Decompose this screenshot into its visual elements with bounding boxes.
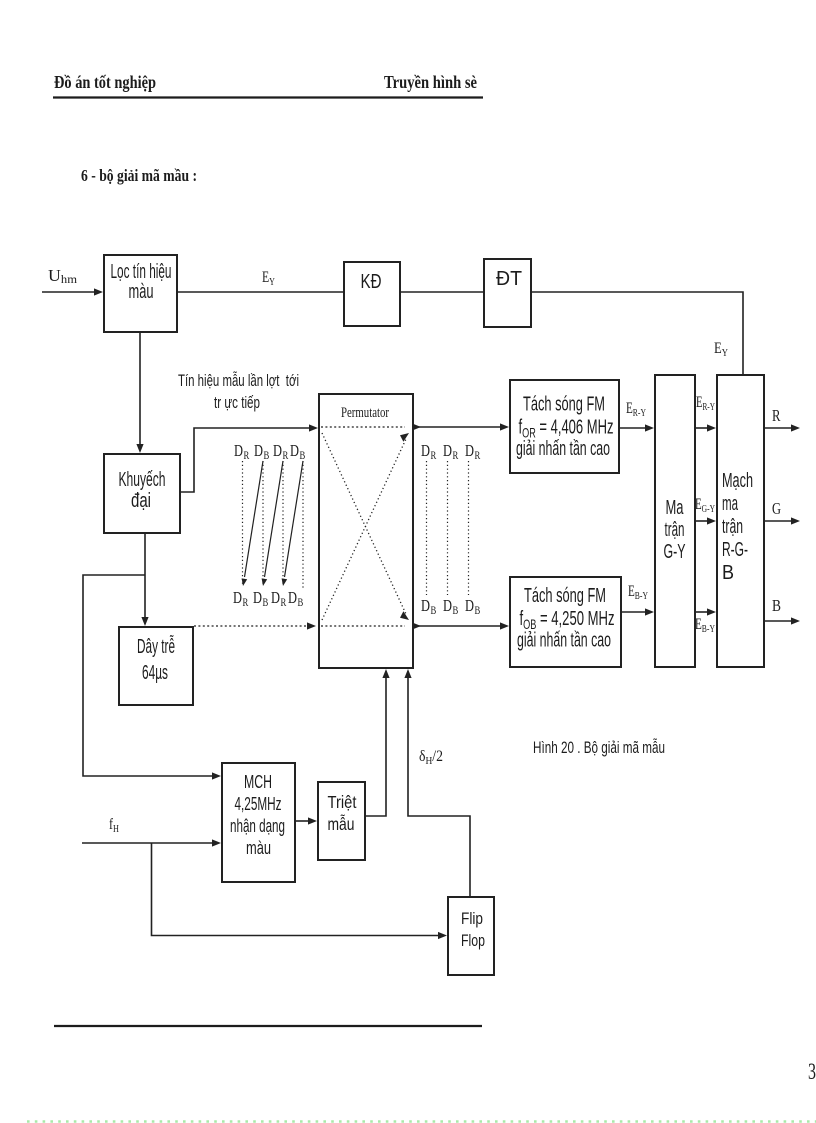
svg-text:nhận dạng: nhận dạng	[230, 815, 285, 836]
wire: Permutator top output to Tach song FM (R)	[414, 426, 502, 428]
dotted drop line under D-B 2	[302, 461, 304, 590]
svg-text:D: D	[443, 596, 452, 615]
wire: G output	[765, 520, 792, 522]
svg-text:EY: EY	[262, 269, 275, 288]
footer separator line	[54, 1025, 482, 1027]
wire: Ma tran G-Y to Mach ma tran (E R-Y)	[696, 427, 709, 429]
svg-text:D: D	[234, 441, 243, 460]
arrowhead: down into Khuyech dai	[136, 444, 143, 453]
svg-text:Flip: Flip	[461, 910, 483, 928]
dotted drop line right column 3	[468, 461, 470, 595]
svg-text:Hình 20 . Bộ giải mã mẫu: Hình 20 . Bộ giải mã mẫu	[533, 738, 665, 757]
dotted drop line under D-R 2	[282, 461, 284, 586]
svg-text:B: B	[431, 603, 437, 617]
dotted drop line under D-B 1	[262, 461, 264, 586]
svg-text:màu: màu	[246, 837, 271, 858]
svg-text:R: R	[453, 448, 459, 462]
arrowhead: into Mach (E R-Y)	[707, 424, 716, 431]
dotted diagonal: bottom-left to top-right	[322, 439, 406, 620]
svg-text:Mạch: Mạch	[722, 470, 753, 492]
svg-text:3: 3	[808, 1059, 816, 1084]
block: Mach ma tran R-G-B	[717, 375, 764, 667]
svg-text:B: B	[475, 603, 481, 617]
delay arrow 3	[285, 461, 304, 577]
svg-text:R: R	[431, 448, 437, 462]
svg-text:δH/2: δH/2	[419, 748, 443, 767]
arrowhead: into Mach (E G-Y)	[707, 517, 716, 524]
arrowhead: into Tach song FM (R)	[500, 423, 509, 430]
svg-text:ĐT: ĐT	[496, 268, 522, 290]
svg-text:EB-Y: EB-Y	[628, 583, 648, 602]
svg-text:R: R	[283, 448, 289, 462]
arrowhead: B output	[791, 617, 800, 624]
arrowhead: into Flip Flop	[438, 932, 447, 939]
wire: Khuyech dai to Permutator top input	[181, 428, 311, 492]
svg-text:Tín hiệu mẫu lần lợt tới: Tín hiệu mẫu lần lợt tới	[178, 371, 299, 390]
block: Khuyech dai	[104, 454, 180, 533]
arrowhead: into Tach song FM (B)	[500, 622, 509, 629]
svg-text:R: R	[244, 448, 250, 462]
svg-text:R: R	[243, 595, 249, 609]
svg-text:B: B	[772, 596, 781, 615]
arrowhead: down into Day tre	[141, 617, 148, 626]
arrowhead: R output	[791, 424, 800, 431]
block: Day tre 64us	[119, 627, 193, 705]
svg-text:D: D	[421, 441, 430, 460]
svg-text:Triệt: Triệt	[328, 792, 357, 812]
svg-text:64µs: 64µs	[142, 662, 168, 684]
arrowhead: Triet mau into Permutator bottom	[382, 669, 389, 678]
svg-text:D: D	[290, 441, 299, 460]
arrowhead: Flip Flop into Permutator bottom	[404, 669, 411, 678]
svg-text:EB-Y: EB-Y	[695, 616, 715, 635]
block: Ma tran G-Y	[655, 375, 695, 667]
block: KD	[344, 262, 400, 326]
svg-text:D: D	[273, 441, 282, 460]
svg-text:fH: fH	[109, 816, 119, 835]
svg-text:R: R	[475, 448, 481, 462]
svg-text:B: B	[264, 448, 270, 462]
dotted drop line right column 1	[426, 461, 428, 595]
svg-text:D: D	[233, 588, 242, 607]
wire: MCH to Triet mau	[295, 820, 310, 822]
wire: Uhm input into Loc tin hieu mau	[42, 291, 95, 293]
svg-text:Đồ án tốt nghiệp: Đồ án tốt nghiệp	[54, 72, 156, 92]
svg-text:Uhm: Uhm	[48, 266, 78, 286]
wire: Loc tin hieu mau down to Khuyech dai	[139, 333, 141, 446]
svg-text:giải nhấn tần cao: giải nhấn tần cao	[516, 438, 610, 460]
wire: DT to Mach ma tran (E-Y feed)	[531, 292, 743, 374]
svg-text:Flop: Flop	[461, 932, 485, 950]
header underline	[53, 96, 483, 98]
svg-text:ER-Y: ER-Y	[696, 394, 715, 413]
wire: Triet mau up into Permutator	[365, 677, 386, 816]
wire: fH branch to Flip Flop	[152, 843, 441, 936]
svg-text:B: B	[300, 448, 306, 462]
arrowhead: into Permutator top	[309, 424, 318, 431]
arrowhead: delay arrow 3	[282, 578, 288, 586]
arrowhead: fH into MCH	[212, 839, 221, 846]
svg-text:giải nhấn tần cao: giải nhấn tần cao	[517, 630, 611, 652]
svg-text:màu: màu	[129, 281, 154, 303]
wire: Permutator bottom output to Tach song FM (B)	[414, 625, 502, 627]
svg-text:ma: ma	[722, 493, 738, 515]
wire: Loc tin hieu mau to KD (E-Y line)	[178, 291, 343, 293]
arrowhead: into Ma tran (E R-Y)	[645, 424, 654, 431]
svg-text:4,25MHz: 4,25MHz	[235, 793, 282, 814]
svg-text:MCH: MCH	[244, 771, 272, 792]
wire: fH into MCH	[82, 842, 214, 844]
svg-text:D: D	[465, 596, 474, 615]
svg-text:KĐ: KĐ	[361, 271, 382, 293]
arrowhead: G output	[791, 517, 800, 524]
arrowhead: Permutator top inner exit	[412, 423, 421, 430]
svg-text:mẫu: mẫu	[328, 813, 355, 834]
svg-text:D: D	[254, 441, 263, 460]
svg-text:Dây trễ: Dây trễ	[137, 635, 175, 658]
svg-text:R: R	[772, 406, 781, 425]
arrowhead: into Ma tran (E B-Y)	[645, 608, 654, 615]
arrowhead: into Triet mau	[308, 817, 317, 824]
wire: Tach song FM (R) to Ma tran G-Y	[620, 427, 647, 429]
wire: Flip Flop up into Permutator	[408, 677, 470, 897]
svg-text:D: D	[271, 588, 280, 607]
block: MCH 4,25MHz nhan dang mau	[222, 763, 295, 882]
block: DT	[484, 259, 531, 327]
dotted drop line under D-R 1	[242, 461, 244, 586]
svg-text:EG-Y: EG-Y	[695, 496, 715, 515]
block: Flip Flop	[448, 897, 494, 975]
wire: R output	[765, 427, 792, 429]
wire: Tach song FM (B) to Ma tran G-Y	[622, 611, 647, 613]
block: Tach song FM fob=4250	[510, 577, 621, 667]
arrowhead: Permutator bottom inner exit	[412, 622, 421, 629]
arrowhead: delay arrow 1	[242, 578, 248, 586]
svg-text:R-G-: R-G-	[722, 539, 748, 561]
svg-text:B: B	[722, 562, 734, 584]
block: Tach song FM for=4406	[510, 380, 619, 473]
svg-text:D: D	[288, 588, 297, 607]
delay arrow 1	[245, 461, 264, 577]
svg-text:D: D	[421, 596, 430, 615]
svg-text:D: D	[253, 588, 262, 607]
svg-text:Permutator: Permutator	[341, 405, 389, 421]
svg-text:EY: EY	[714, 340, 728, 359]
svg-text:Ma: Ma	[666, 497, 685, 519]
svg-text:G-Y: G-Y	[664, 541, 686, 563]
svg-text:Tách sóng FM: Tách sóng FM	[524, 585, 606, 607]
arrowhead: delay arrow 2	[262, 578, 268, 586]
svg-text:đại: đại	[131, 490, 151, 512]
arrowhead: input into Loc	[94, 288, 103, 295]
annotation: Tin hieu mau lan lot toi / truc tiep	[178, 371, 299, 412]
arrowhead: diagonal up-right	[400, 433, 409, 442]
svg-text:B: B	[298, 595, 304, 609]
arrowhead: into Mach (E B-Y)	[707, 608, 716, 615]
dotted drop line right column 2	[447, 461, 449, 595]
svg-text:D: D	[465, 441, 474, 460]
svg-text:Tách sóng FM: Tách sóng FM	[523, 394, 605, 416]
svg-text:B: B	[453, 603, 459, 617]
svg-text:Truyền hình sè: Truyền hình sè	[384, 72, 477, 92]
delay arrow 2	[265, 461, 284, 577]
decorative green dotted bottom rule	[27, 1120, 816, 1123]
svg-text:6 - bộ giải mã mầu :: 6 - bộ giải mã mầu :	[81, 166, 197, 185]
svg-text:tr ực tiếp: tr ực tiếp	[214, 393, 260, 412]
wire: Khuyech dai down to Day tre	[144, 534, 146, 619]
svg-text:G: G	[772, 499, 781, 518]
arrowhead: Day tre dotted into Permutator	[307, 622, 316, 629]
block: Triet mau	[318, 782, 365, 860]
svg-text:ER-Y: ER-Y	[626, 400, 646, 419]
wire: Ma tran G-Y to Mach ma tran (E G-Y)	[696, 520, 709, 522]
svg-text:Lọc tín hiệu: Lọc tín hiệu	[111, 261, 172, 283]
dotted line: permutator top path	[321, 426, 405, 428]
svg-text:trận: trận	[722, 516, 743, 538]
svg-text:Khuyếch: Khuyếch	[119, 469, 166, 491]
dotted wire: Day tre to Permutator	[194, 625, 308, 627]
wire: branch to MCH box	[83, 575, 214, 776]
svg-text:trận: trận	[665, 519, 685, 541]
wire: KD to DT	[400, 291, 483, 293]
arrowhead: into MCH (upper)	[212, 772, 221, 779]
svg-text:R: R	[281, 595, 287, 609]
svg-text:D: D	[443, 441, 452, 460]
dotted diagonal: top-left to bottom-right	[322, 433, 406, 614]
wire: Ma tran G-Y to Mach ma tran (E B-Y)	[696, 611, 709, 613]
arrowhead: diagonal down-right	[400, 611, 409, 620]
block: Permutator	[319, 394, 413, 668]
wire: B output	[765, 620, 792, 622]
block: Loc tin hieu mau	[104, 255, 177, 332]
dotted line: permutator bottom path	[321, 625, 405, 627]
svg-text:B: B	[263, 595, 269, 609]
